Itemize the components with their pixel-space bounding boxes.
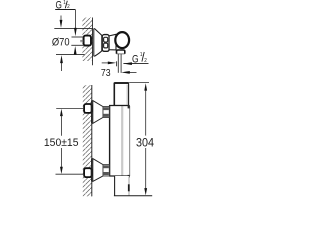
check valve lower — [104, 43, 108, 48]
label G 1/2 (right, outlet thread) with left arrow leader — [123, 52, 148, 66]
150+-15 extension line lower — [56, 173, 85, 175]
valve body (plan view rounded rect) — [102, 35, 109, 52]
svg-text:150±15: 150±15 — [44, 137, 79, 149]
dia70 dimension bottom arrow (up) — [61, 63, 63, 72]
main tube body — [109, 106, 129, 177]
svg-text:Ø70: Ø70 — [52, 37, 70, 49]
wall section (lower view) hatched band — [83, 85, 92, 196]
bottom edge / 304 extension line — [114, 195, 152, 197]
cartridge housing to handle — [109, 34, 116, 50]
dia 70 bottom extension line — [56, 54, 85, 56]
wall section (top plan view) hatched band — [82, 18, 92, 62]
nut bottom extension line — [71, 44, 83, 46]
outlet coupling nut below handle — [117, 50, 125, 54]
304 dimension line with arrows — [145, 91, 147, 136]
G1/2 leader drop with down arrow to nut — [74, 10, 76, 30]
union 1: concealed nut in wall — [84, 104, 92, 113]
304 top extension line — [129, 81, 149, 83]
escutcheon (plan view): base plate at wall — [92, 28, 94, 56]
svg-text:1: 1 — [140, 52, 143, 58]
union 1 coupling nut with knurl bands — [103, 107, 109, 118]
wall face line (top view) also 73-dim extension line — [92, 18, 94, 66]
union 2: concealed nut in wall — [84, 168, 92, 177]
73 extension tick at coupling edge — [116, 61, 118, 66]
150+-15 extension line upper — [56, 108, 84, 110]
union 2 coupling nut with knurl bands — [103, 165, 109, 176]
union 1 escutcheon cone — [93, 101, 103, 124]
column top cap — [114, 83, 128, 106]
pipe end leader arrow (left) — [128, 71, 137, 73]
dia 70 top extension line — [54, 27, 92, 29]
union 1 escutcheon base — [91, 101, 93, 124]
column bottom cap — [115, 176, 129, 196]
union 2 escutcheon base — [91, 159, 93, 182]
73 dimension line with right arrow — [102, 62, 109, 64]
svg-text:1: 1 — [63, 0, 66, 6]
svg-text:2: 2 — [144, 58, 147, 64]
concealed supply nut (in-wall fitting, plan view) — [84, 36, 91, 46]
handle knob (plan view circle) — [115, 32, 129, 48]
wall face line (lower view) — [91, 85, 93, 196]
G1/2 second arrow pointing up at nut bottom — [74, 53, 76, 55]
nut top extension line — [72, 36, 84, 38]
supply pipe stub in wall — [80, 39, 83, 41]
union 2 escutcheon cone — [93, 159, 103, 182]
shoulder top — [109, 105, 129, 107]
check valve upper — [104, 37, 108, 42]
svg-text:73: 73 — [101, 68, 111, 79]
shoulder bottom — [109, 175, 130, 177]
150+-15 dimension line with arrows — [60, 109, 63, 116]
dia70 dimension top arrow (down) — [60, 16, 62, 21]
svg-text:304: 304 — [136, 135, 154, 149]
outlet pipe (down) — [117, 54, 119, 73]
label G 1/2 (top, supply thread) — [55, 0, 75, 12]
escutcheon cone curves — [94, 28, 102, 56]
